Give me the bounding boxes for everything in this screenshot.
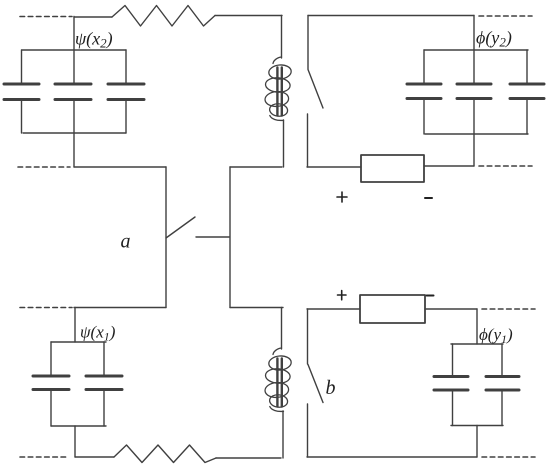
wire: mid-left dashed lead bbox=[18, 166, 70, 168]
wire: bottom horizontal to inductor branch bbox=[216, 457, 281, 459]
wire: box R2 to cap bank bbox=[425, 308, 477, 310]
capacitor C2a: plates bbox=[407, 84, 441, 99]
capacitor C3a: top lead bbox=[50, 342, 52, 376]
wire: bottom-left dashed lead bbox=[20, 456, 68, 458]
capacitor bank C(y2): top rail bbox=[424, 49, 528, 51]
svg-text:ψ(x2): ψ(x2) bbox=[75, 29, 113, 51]
wire: top-left dashed lead bbox=[20, 16, 72, 18]
svg-text:b: b bbox=[326, 377, 336, 399]
wire: horizontal y307 left bbox=[74, 307, 166, 309]
wire: bottom horizontal left bbox=[75, 456, 114, 458]
wire: top horizontal (left) bbox=[74, 16, 112, 18]
switch b: upper lead bbox=[307, 309, 309, 364]
inductor L2: coil bbox=[265, 348, 292, 411]
inductor L1: core bars bbox=[277, 68, 281, 116]
capacitor C1a: bottom lead bbox=[21, 100, 23, 134]
capacitor bank C(y1): bottom rail bbox=[451, 425, 503, 427]
wire: right dashed y309 bbox=[482, 308, 535, 310]
wire: bottom horizontal right bbox=[307, 456, 477, 458]
svg-text:ϕ(y1): ϕ(y1) bbox=[479, 325, 513, 346]
wire: ψ(x2) vertical lead upper bbox=[73, 17, 75, 85]
inductor L2: core bars bbox=[277, 359, 281, 407]
wire: φ(y2) vertical lead upper bbox=[473, 16, 475, 85]
capacitor bank C(x1): bottom rail bbox=[51, 425, 106, 427]
resistor box R1 bbox=[361, 155, 424, 182]
capacitor C3b: top lead bbox=[103, 342, 105, 376]
wire: φ(y1) vertical lead upper bbox=[476, 309, 478, 344]
wire: inductor L1 top lead bbox=[281, 16, 283, 59]
wire: right dashed y166 bbox=[479, 165, 532, 167]
wire: middle column vertical bbox=[229, 167, 231, 308]
capacitor C4b: bottom lead bbox=[501, 390, 503, 426]
capacitor C2a: bottom lead bbox=[423, 99, 425, 135]
capacitor C3b: plates bbox=[86, 376, 122, 390]
label - (R2) bbox=[427, 295, 434, 297]
resistor box R2 bbox=[360, 295, 425, 323]
switch b: lower lead bbox=[307, 404, 309, 457]
capacitor C4a: bottom lead bbox=[452, 390, 454, 426]
resistor R-bottom (zigzag) bbox=[114, 445, 216, 463]
wire: inductor L2 bottom lead bbox=[282, 411, 284, 458]
wire: ψ(x1) vertical lead upper bbox=[74, 308, 76, 343]
capacitor bank C(x1): top rail bbox=[51, 341, 106, 343]
capacitor C2b: plates bbox=[457, 84, 491, 99]
capacitor bank C(x2): top rail bbox=[22, 49, 126, 51]
wire: top horizontal (right) bbox=[308, 15, 474, 17]
capacitor C3b: bottom lead bbox=[103, 390, 105, 427]
wire: top horizontal to inductor branch bbox=[215, 15, 282, 17]
svg-text:ϕ(y2): ϕ(y2) bbox=[476, 28, 512, 50]
wire: top-right dashed bbox=[479, 15, 532, 17]
wire: ψ(x2) vertical lead lower bbox=[73, 100, 75, 168]
switch S-top: upper lead bbox=[307, 16, 309, 70]
wire: switch b to box R2 bbox=[307, 308, 360, 310]
wire: horizontal y167 middle bbox=[230, 166, 282, 168]
capacitor C4b: plates bbox=[486, 377, 519, 391]
wire: horizontal y307 middle bbox=[230, 307, 283, 309]
capacitor C1c: top lead bbox=[125, 50, 127, 84]
switch a: contact stub bbox=[196, 236, 229, 238]
capacitor C3a: bottom lead bbox=[50, 390, 52, 427]
capacitor C1a: left lead bbox=[21, 50, 23, 84]
capacitor C1c: plates bbox=[108, 84, 144, 100]
capacitor C1b: plates bbox=[55, 84, 91, 100]
wire: horizontal y167 left bbox=[74, 166, 166, 168]
wire: φ(y1) vertical lead lower bbox=[476, 426, 478, 458]
capacitor C2a: top lead bbox=[423, 50, 425, 84]
wire: inductor L1 bottom lead bbox=[283, 120, 285, 167]
switch S-top: blade bbox=[308, 70, 323, 109]
wire: bottom-right dashed bbox=[482, 456, 535, 458]
wire: to box R1 bbox=[307, 166, 361, 168]
wire: box R1 to cap bank bbox=[424, 165, 474, 167]
capacitor C2c: bottom lead bbox=[526, 99, 528, 135]
switch a: blade bbox=[166, 217, 195, 238]
capacitor bank C(x2): bottom rail bbox=[23, 132, 126, 134]
capacitor C1c: bottom lead bbox=[125, 100, 127, 134]
switch b: blade bbox=[308, 365, 323, 403]
wire: φ(y2) vertical lead lower bbox=[473, 99, 475, 167]
wire: dashed lead left y307 bbox=[20, 307, 72, 309]
capacitor C1a: plates bbox=[4, 84, 39, 100]
label + (R2) bbox=[338, 291, 347, 300]
capacitor C4b: top lead bbox=[501, 344, 503, 377]
switch S-top: lower lead bbox=[307, 114, 309, 167]
capacitor bank C(y1): top rail bbox=[451, 343, 503, 345]
svg-text:a: a bbox=[121, 231, 131, 253]
capacitor C4a: top lead bbox=[452, 344, 454, 377]
capacitor C3a: plates bbox=[33, 376, 69, 390]
wire: ψ(x1) vertical lead lower bbox=[74, 426, 76, 457]
inductor L1: coil bbox=[265, 57, 292, 120]
capacitor C2c: top lead bbox=[526, 50, 528, 84]
label - (R1) bbox=[425, 197, 432, 199]
capacitor C4a: plates bbox=[434, 377, 468, 391]
wire: switch-a branch vertical bbox=[165, 167, 167, 308]
resistor R-top (zigzag) bbox=[112, 6, 215, 27]
label + (R1) bbox=[337, 192, 347, 202]
capacitor bank C(y2): bottom rail bbox=[425, 133, 528, 135]
svg-text:ψ(x1): ψ(x1) bbox=[80, 323, 116, 344]
capacitor C2c: plates bbox=[510, 84, 544, 99]
wire: inductor L2 top lead bbox=[281, 308, 283, 350]
